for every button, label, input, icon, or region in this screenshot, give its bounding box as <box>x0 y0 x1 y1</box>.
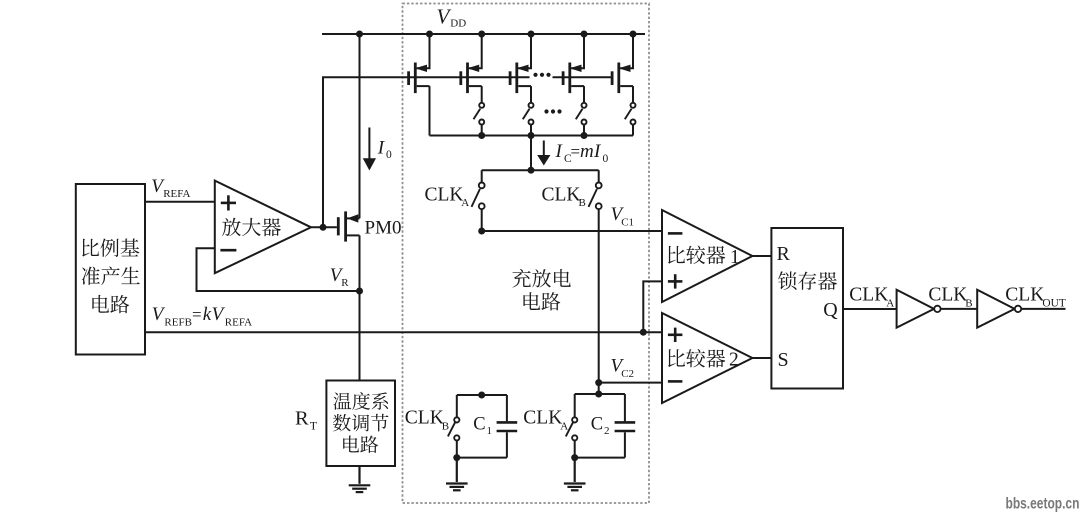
label: temp box text line 3 <box>343 435 378 452</box>
node: VDD junction to M4 <box>581 31 588 38</box>
wire: V_REFA to op-amp non-inverting input <box>145 201 215 203</box>
switch CLK_B (discharge C1) <box>448 417 460 440</box>
wire: drop to CLK_A charge switch <box>481 170 483 182</box>
svg-text:=: = <box>571 142 581 161</box>
svg-text:CLK: CLK <box>849 285 888 306</box>
node: C2 top junction <box>595 391 602 398</box>
wire: PM0 source to VDD <box>359 34 361 218</box>
node: rail junction M3 <box>528 132 535 139</box>
wire: C2 top rail to discharge switch <box>574 394 576 417</box>
label: latch text <box>778 271 837 290</box>
svg-text:0: 0 <box>603 153 609 165</box>
svg-text:R: R <box>295 408 309 430</box>
wire: CLK_A switch to node V_C1 <box>481 209 483 231</box>
wire: V_R node down to temperature box <box>359 291 361 381</box>
label: comparator 1 number <box>730 247 740 268</box>
transistor M2 (PMOS of current mirror) <box>461 34 482 93</box>
node: V_REFB junction to both comparators <box>640 329 647 336</box>
wire: VDD supply rail <box>322 33 645 35</box>
svg-text:S: S <box>778 349 789 371</box>
label CLK_A (Q output) <box>849 285 894 310</box>
label: reference box text line 3 <box>92 295 129 313</box>
block: proportional reference generator box <box>76 184 145 355</box>
wire: C1 top plate lead <box>506 395 508 421</box>
comparator U3 (comparator 2) triangle <box>662 313 752 403</box>
svg-text:R: R <box>777 243 791 265</box>
node: I_C split junction <box>528 167 535 174</box>
inverter X1 bubble <box>934 306 940 312</box>
wire: split line feeding CLK_A/CLK_B switches <box>482 169 599 171</box>
ellipsis dots on gate bus <box>533 73 550 77</box>
svg-text:C2: C2 <box>621 368 634 380</box>
wire: I_C tap from output rail <box>530 136 532 171</box>
wire: latch Q output to inverter 1 <box>843 308 897 310</box>
node: C1 top junction <box>478 392 485 399</box>
svg-text:CLK: CLK <box>425 184 464 205</box>
wire: V_C2 to comparator 2 inverting input <box>599 382 662 384</box>
label R_T <box>295 408 318 433</box>
node: VDD junction to M1 <box>426 31 433 38</box>
op-amp U1 (amplifier) triangle <box>215 181 311 274</box>
label PM0 <box>365 218 402 239</box>
wire: V_C1 to comparator 1 inverting input <box>482 230 662 232</box>
label V_DD <box>437 5 467 30</box>
wire: discharge switch to C2 bottom rail <box>574 441 576 458</box>
svg-text:A: A <box>560 421 568 433</box>
wire: C1 bottom rail <box>457 457 507 459</box>
transistor M1 (PMOS of current mirror) <box>409 34 430 93</box>
switch CLK_B (charge select) <box>589 183 602 210</box>
label: latch Q output <box>823 299 838 321</box>
transistor M5 (PMOS of current mirror) <box>612 34 633 93</box>
capacitor C2 <box>615 422 636 431</box>
svg-text:PM0: PM0 <box>365 218 402 239</box>
wire: C2 top rail <box>575 393 625 395</box>
wire: C1 bottom plate lead <box>506 432 508 457</box>
current arrow I_C <box>537 141 550 166</box>
label V_R <box>330 265 349 289</box>
svg-text:0: 0 <box>386 149 392 161</box>
node V_C1 <box>478 228 485 235</box>
svg-text:Q: Q <box>823 299 838 321</box>
wire: C2 bottom plate lead <box>624 432 626 457</box>
label: reference box text line 1 <box>82 239 139 257</box>
node: VDD junction to M3 <box>528 31 535 38</box>
wire: PM0 drain to V_R node <box>359 235 361 291</box>
comparator 1 plus sign <box>668 274 683 288</box>
wire: switch M5 to output rail <box>632 125 634 136</box>
transistor PM0 (PMOS) <box>338 211 359 241</box>
svg-text:DD: DD <box>450 18 466 30</box>
wire: discharge switch to C1 bottom rail <box>456 441 458 458</box>
wire: drop to CLK_B charge switch <box>598 170 600 182</box>
svg-text:2: 2 <box>604 425 610 437</box>
svg-text:V: V <box>437 5 452 29</box>
wire: mirror gate bus (left segment) <box>322 76 530 78</box>
inverter X2 bubble <box>1015 306 1021 312</box>
svg-text:REFA: REFA <box>225 317 252 329</box>
label V_REFB=kV_REFA <box>152 304 252 329</box>
inverter X2 triangle <box>977 290 1014 328</box>
svg-text:bbs.eetop.cn: bbs.eetop.cn <box>1006 494 1080 512</box>
label CLK_OUT <box>1005 285 1066 310</box>
label V_C2 <box>611 356 635 381</box>
node V_C2 <box>595 379 602 386</box>
svg-text:2: 2 <box>729 350 739 371</box>
wire: inverter 1 to inverter 2 (CLK_B) <box>941 308 978 310</box>
label CLK_B (charge switch) <box>542 184 586 209</box>
transistor M4 (PMOS of current mirror) <box>563 34 584 93</box>
label C1 <box>473 414 492 437</box>
wire: M4 drain to switch <box>583 86 585 103</box>
wire: C2 top plate lead <box>624 394 626 421</box>
label: temp box text line 2 <box>333 414 389 432</box>
svg-text:OUT: OUT <box>1042 297 1065 309</box>
label: latch S input <box>778 349 789 371</box>
svg-text:CLK: CLK <box>542 184 581 205</box>
node V_R <box>356 288 363 295</box>
label: comparator 1 text <box>668 246 725 265</box>
label CLK_B (between inverters) <box>928 285 972 310</box>
node: rail junction M2 <box>478 132 485 139</box>
svg-text:REFB: REFB <box>164 317 192 329</box>
label: temp box text line 1 <box>333 392 388 410</box>
wire: comparator 2 output to latch S <box>752 357 771 359</box>
svg-text:REFA: REFA <box>163 188 190 200</box>
svg-text:C: C <box>591 414 603 434</box>
label CLK_A (discharge switch) <box>523 408 568 433</box>
svg-text:CLK: CLK <box>928 285 967 306</box>
block: temperature coefficient adjust box <box>326 381 395 467</box>
wire: C2 bottom rail <box>575 457 625 459</box>
ellipsis dots between mirror switches <box>544 109 561 113</box>
svg-text:B: B <box>965 297 972 309</box>
svg-text:A: A <box>886 297 894 309</box>
wire: CLK_OUT output <box>1021 308 1065 310</box>
svg-text:A: A <box>461 197 469 209</box>
label: amplifier text <box>222 218 281 236</box>
block: latch box <box>771 228 843 389</box>
wire: op-amp output to PM0 gate <box>311 226 337 228</box>
wire: switch M4 to output rail <box>583 125 585 136</box>
label: comparator 2 number <box>729 350 739 371</box>
svg-text:CLK: CLK <box>523 408 562 429</box>
transistor M3 (PMOS of current mirror) <box>510 34 531 93</box>
svg-text:T: T <box>310 419 318 433</box>
label V_C1 <box>611 204 635 229</box>
wire: mirror gate bus (right segment) <box>553 76 613 78</box>
svg-text:1: 1 <box>487 425 493 437</box>
op-amp minus input sign <box>220 249 236 252</box>
switch under M4 <box>576 103 587 125</box>
node: VDD junction to PM0 source <box>356 31 363 38</box>
wire: CLK_B switch down to node V_C2 <box>598 209 600 382</box>
label V_REFA <box>151 176 190 200</box>
comparator 2 minus sign <box>668 380 683 383</box>
switch CLK_A (discharge C2) <box>566 417 578 440</box>
svg-text:k: k <box>203 304 212 325</box>
wire: C1 top rail to discharge switch <box>456 395 458 417</box>
switch CLK_A (charge select) <box>472 183 485 210</box>
wire: M5 drain to switch <box>632 86 634 103</box>
wire: V_REFB up to comparator 1 non-inverting input <box>643 281 662 332</box>
switch under M3 <box>523 103 534 125</box>
wire: M2 drain to switch <box>481 86 483 103</box>
ground under C1 branch <box>446 458 468 491</box>
label: comparator 2 text <box>668 349 725 368</box>
svg-text:CLK: CLK <box>405 408 444 429</box>
label CLK_B (discharge switch) <box>405 408 449 433</box>
current arrow I_0 <box>363 128 376 171</box>
svg-text:m: m <box>580 141 594 162</box>
label I_0 <box>377 138 392 162</box>
node: op-amp output / gate bus junction <box>320 224 327 231</box>
op-amp plus input sign <box>221 195 236 210</box>
wire: mirror output rail <box>430 135 634 137</box>
wire: switch M3 to output rail <box>530 125 532 136</box>
wire: M1 drain to output rail <box>429 86 431 135</box>
svg-text:1: 1 <box>730 247 740 268</box>
svg-text:B: B <box>579 197 586 209</box>
wire: switch M2 to output rail <box>481 125 483 136</box>
label I_C=mI_0 <box>555 141 609 165</box>
comparator 2 plus sign <box>668 328 683 342</box>
ground under C2 branch <box>564 458 586 491</box>
svg-text:C1: C1 <box>621 217 634 229</box>
label: charge/discharge circuit (line 1) <box>512 269 571 288</box>
svg-text:R: R <box>341 277 349 289</box>
svg-text:B: B <box>442 421 449 433</box>
wire: C1 top rail <box>457 394 507 396</box>
label: charge/discharge circuit (line 2) <box>523 292 560 310</box>
wire: feedback from V_R to op-amp inverting input <box>197 248 360 291</box>
svg-text:CLK: CLK <box>1005 285 1044 306</box>
label C2 <box>591 414 610 437</box>
svg-text:C: C <box>473 414 485 434</box>
node: VDD junction to M5 <box>630 31 637 38</box>
node: rail junction M4 <box>581 132 588 139</box>
svg-text:=: = <box>192 305 202 324</box>
node: C1 bottom junction <box>453 454 460 461</box>
wire: M3 drain to switch <box>530 86 532 103</box>
node: VDD junction to M2 <box>478 31 485 38</box>
ground under temperature box <box>349 466 371 492</box>
capacitor C1 <box>497 422 518 431</box>
inverter X1 triangle <box>897 290 934 328</box>
wire: gate bus drop to op-amp output node <box>322 77 324 227</box>
node: C2 bottom junction <box>571 454 578 461</box>
label: latch R input <box>777 243 791 265</box>
wire: comparator 1 output to latch R <box>752 255 771 257</box>
label: reference box text line 2 <box>82 266 140 285</box>
comparator U2 (comparator 1) triangle <box>662 210 752 302</box>
wire: V_REFB rail from reference box to comparators <box>145 331 643 333</box>
label CLK_A (charge switch) <box>425 184 470 209</box>
wire: V_C2 node to C2 top <box>598 383 600 394</box>
wire: V_REFB to comparator 2 non-inverting input <box>643 331 662 333</box>
switch under M5 <box>625 103 636 125</box>
dashed boundary box of charge/discharge circuit block <box>403 4 650 504</box>
comparator 1 minus sign <box>668 232 683 235</box>
switch under M2 <box>474 103 485 125</box>
